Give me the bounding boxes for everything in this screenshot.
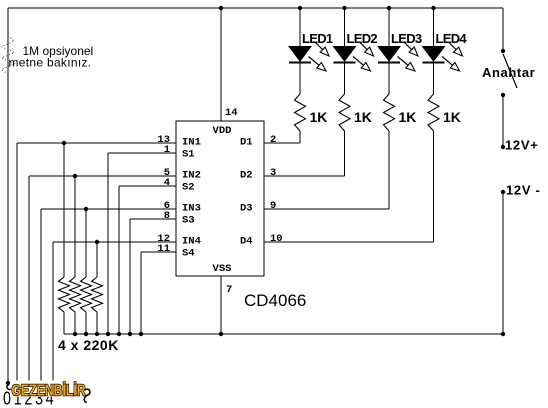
svg-text:4 x 220K: 4 x 220K: [58, 337, 119, 353]
svg-text:S1: S1: [182, 149, 195, 161]
svg-text:D4: D4: [240, 236, 253, 248]
svg-text:D2: D2: [240, 170, 253, 182]
svg-text:LED3: LED3: [391, 31, 422, 46]
svg-text:14: 14: [225, 107, 238, 119]
svg-text:4: 4: [164, 177, 170, 189]
svg-text:IN4: IN4: [182, 236, 201, 248]
svg-text:S2: S2: [182, 182, 195, 194]
svg-text:10: 10: [270, 233, 283, 245]
svg-text:D3: D3: [240, 203, 253, 215]
svg-text:IN3: IN3: [182, 203, 201, 215]
svg-text:7: 7: [226, 284, 232, 296]
svg-text:VSS: VSS: [213, 263, 232, 275]
svg-text:IN1: IN1: [182, 137, 201, 149]
svg-text:metne bakınız.: metne bakınız.: [9, 56, 92, 70]
svg-text:Anahtar: Anahtar: [482, 65, 535, 80]
svg-text:11: 11: [157, 243, 170, 255]
svg-text:1K: 1K: [443, 109, 461, 125]
svg-text:IN2: IN2: [182, 170, 201, 182]
svg-text:LED1: LED1: [302, 31, 333, 46]
svg-text:GEZENBİLİR: GEZENBİLİR: [12, 381, 86, 399]
svg-text:12V+: 12V+: [505, 138, 539, 153]
svg-text:8: 8: [164, 210, 170, 222]
svg-text:S3: S3: [182, 215, 195, 227]
svg-text:1K: 1K: [354, 109, 372, 125]
svg-text:1: 1: [164, 144, 170, 156]
svg-text:1K: 1K: [310, 109, 328, 125]
svg-text:12V -: 12V -: [506, 183, 541, 198]
svg-text:CD4066: CD4066: [244, 291, 306, 310]
svg-text:D1: D1: [240, 137, 253, 149]
svg-text:1K: 1K: [399, 109, 417, 125]
svg-text:VDD: VDD: [213, 125, 232, 137]
svg-text:S4: S4: [182, 248, 195, 260]
svg-text:LED4: LED4: [436, 31, 468, 46]
svg-text:3: 3: [270, 167, 276, 179]
svg-text:2: 2: [270, 134, 276, 146]
svg-text:9: 9: [270, 200, 276, 212]
svg-text:LED2: LED2: [347, 31, 378, 46]
